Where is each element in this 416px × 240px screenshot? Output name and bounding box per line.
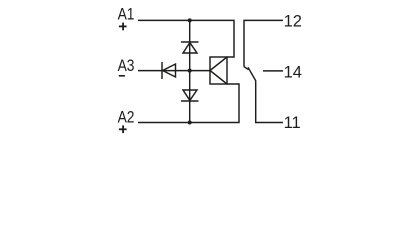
svg-text:A3: A3 [118,57,135,75]
svg-text:11: 11 [284,114,301,132]
junction node A1-bus [188,18,192,22]
svg-text:12: 12 [284,12,302,30]
movable contact arm to terminal 11 [248,67,283,122]
polarity minus at A3 [119,75,125,77]
diode D3 on A3 line (cathode left) [162,62,176,79]
wire vertical bus [189,20,191,122]
polarity plus at A2 [119,125,127,133]
diode D1 upper (cathode up) [181,42,199,53]
wire contact 14 [263,70,283,72]
wire A2 to coil bottom [138,84,239,123]
svg-text:14: 14 [284,64,302,82]
svg-text:A2: A2 [118,109,135,127]
wire A3 [138,70,210,72]
junction node A3-bus [188,69,192,73]
polarity plus at A1 [119,23,127,31]
junction node A2-bus [188,121,192,125]
wire A1 to coil top [138,20,234,57]
relay coil K1 box with polarity triangle [210,57,227,84]
wire contact 12 with fixed contact vertical [244,20,283,66]
svg-text:A1: A1 [118,6,135,24]
diode D2 lower (cathode down) [181,90,199,101]
fixed contact seat tick [244,67,249,70]
